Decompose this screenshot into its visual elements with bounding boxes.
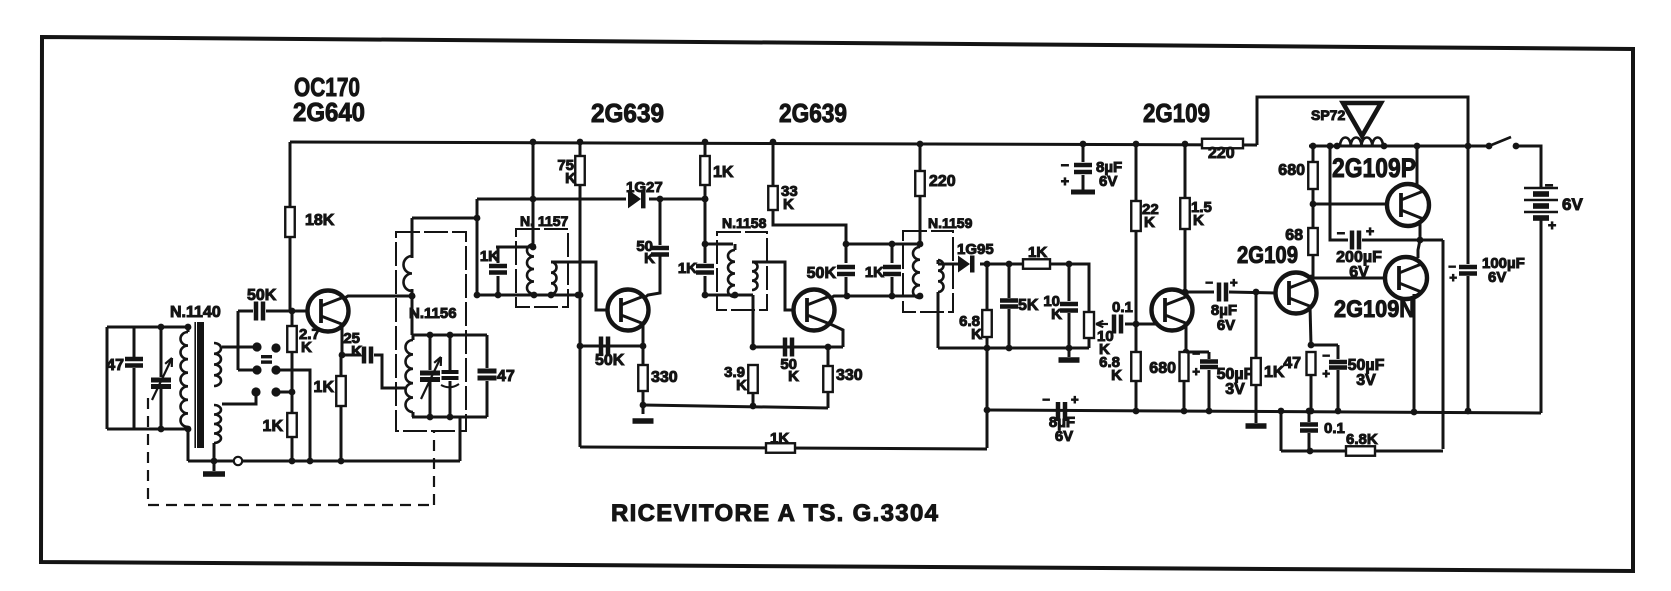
svg-text:+: + — [1449, 270, 1457, 285]
svg-text:2G639: 2G639 — [591, 98, 664, 128]
svg-text:K: K — [301, 339, 312, 356]
svg-text:50K: 50K — [247, 287, 277, 304]
svg-text:1K: 1K — [865, 264, 884, 281]
svg-text:0.1: 0.1 — [1112, 299, 1133, 316]
svg-text:6V: 6V — [1099, 173, 1117, 190]
svg-text:N.1159: N.1159 — [928, 215, 973, 231]
svg-text:6V: 6V — [1055, 428, 1073, 445]
svg-text:6V: 6V — [1349, 264, 1369, 281]
svg-text:0.1: 0.1 — [1324, 420, 1345, 437]
svg-text:2G640: 2G640 — [293, 97, 365, 127]
svg-text:K: K — [1193, 212, 1204, 229]
svg-text:680: 680 — [1149, 360, 1176, 377]
svg-text:−: − — [1205, 275, 1213, 290]
svg-text:680: 680 — [1278, 162, 1305, 179]
svg-text:2G109: 2G109 — [1237, 242, 1298, 269]
svg-text:+: + — [1071, 392, 1079, 407]
svg-text:6V: 6V — [1488, 269, 1506, 286]
svg-text:−: − — [1061, 157, 1069, 173]
svg-text:47: 47 — [106, 357, 124, 374]
svg-text:1K: 1K — [1264, 364, 1285, 381]
svg-text:K: K — [971, 326, 982, 343]
svg-text:K: K — [783, 196, 794, 213]
svg-text:18K: 18K — [305, 212, 335, 229]
svg-text:330: 330 — [651, 369, 678, 386]
svg-text:220: 220 — [929, 173, 956, 190]
svg-text:K: K — [351, 343, 362, 360]
svg-text:330: 330 — [836, 367, 863, 384]
svg-text:3V: 3V — [1356, 372, 1376, 389]
svg-text:K: K — [1144, 214, 1155, 231]
svg-text:6.8K: 6.8K — [1346, 431, 1378, 448]
svg-text:6V: 6V — [1562, 195, 1583, 214]
svg-text:1K: 1K — [1028, 244, 1047, 261]
svg-text:+: + — [1366, 223, 1374, 239]
svg-text:−: − — [1322, 348, 1330, 363]
svg-text:K: K — [788, 368, 799, 385]
svg-text:K: K — [736, 377, 747, 394]
svg-text:1G95: 1G95 — [957, 241, 994, 258]
svg-text:1G27: 1G27 — [626, 179, 663, 196]
svg-text:+: + — [1548, 217, 1556, 233]
svg-text:N.1156: N.1156 — [409, 305, 457, 322]
svg-text:47: 47 — [1283, 355, 1301, 372]
svg-text:2G109P: 2G109P — [1332, 153, 1416, 183]
svg-text:K: K — [565, 170, 576, 187]
svg-text:1K: 1K — [713, 164, 734, 181]
svg-text:K: K — [1051, 306, 1062, 323]
svg-text:−: − — [1337, 225, 1345, 241]
svg-text:5K: 5K — [1018, 297, 1039, 314]
svg-text:2G639: 2G639 — [779, 98, 847, 128]
svg-text:3V: 3V — [1225, 381, 1245, 398]
svg-text:−: − — [1042, 392, 1050, 407]
svg-text:K: K — [644, 250, 655, 267]
svg-text:47: 47 — [497, 368, 515, 385]
svg-text:N. 1157: N. 1157 — [520, 213, 568, 229]
svg-text:50K: 50K — [595, 352, 625, 369]
svg-text:K: K — [1111, 367, 1122, 384]
svg-text:1K: 1K — [770, 430, 789, 447]
svg-text:RICEVITORE A TS. G.3304: RICEVITORE A TS. G.3304 — [611, 500, 939, 527]
svg-text:220: 220 — [1208, 145, 1235, 162]
svg-text:1K: 1K — [678, 260, 697, 277]
svg-text:N.1140: N.1140 — [170, 304, 221, 321]
svg-text:−: − — [1192, 346, 1200, 361]
svg-text:50K: 50K — [807, 265, 837, 282]
svg-text:+: + — [1230, 275, 1238, 290]
svg-text:+: + — [1192, 364, 1200, 379]
svg-text:SP72: SP72 — [1311, 107, 1345, 123]
svg-text:2G109: 2G109 — [1143, 98, 1210, 128]
svg-text:+: + — [1061, 173, 1069, 189]
svg-text:1K: 1K — [314, 379, 335, 396]
svg-text:1K: 1K — [263, 418, 284, 435]
svg-text:−: − — [1545, 177, 1553, 193]
svg-text:6V: 6V — [1217, 317, 1235, 334]
svg-text:1K: 1K — [480, 248, 499, 265]
svg-text:+: + — [1322, 366, 1330, 381]
svg-text:N.1158: N.1158 — [722, 215, 767, 231]
svg-text:2G109N: 2G109N — [1334, 296, 1415, 323]
